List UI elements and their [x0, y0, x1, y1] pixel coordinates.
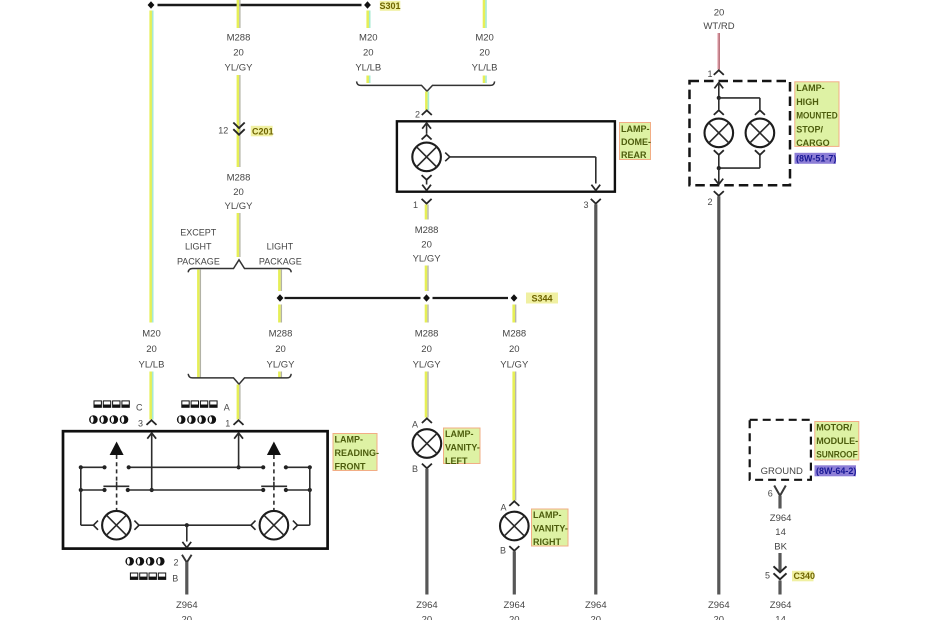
svg-text:LEFT: LEFT	[445, 456, 468, 466]
svg-text:M20: M20	[142, 329, 160, 340]
svg-text:20: 20	[509, 344, 520, 355]
switch left actuator arrow	[110, 442, 124, 456]
svg-text:14: 14	[775, 527, 786, 538]
lamp reading right bulb	[260, 511, 289, 540]
svg-text:20: 20	[146, 344, 157, 355]
connector icons squares row pin C	[94, 401, 129, 407]
wire reading right outer vertical	[298, 467, 310, 525]
label LAMP-VANITY-LEFT	[444, 428, 481, 466]
lamp stop bulb 1	[705, 119, 734, 148]
switch left dashed stem lower	[116, 486, 118, 511]
svg-text:1: 1	[413, 200, 418, 210]
wire Z964 BK sunroof upper	[778, 496, 781, 509]
reading right bulb right bracket	[293, 521, 298, 530]
connector pigtail sunroof pin 6	[774, 486, 786, 496]
svg-text:A: A	[224, 403, 230, 413]
wire except-light-package branch (x=199)	[198, 270, 200, 378]
svg-text:MOUNTED: MOUNTED	[796, 111, 838, 121]
lamp dome bulb	[412, 143, 441, 172]
node reading bottom junction	[185, 523, 189, 527]
wire stop lamp left branch top	[718, 98, 720, 110]
wire M288 YL/GY into vanity left lamp	[426, 372, 428, 418]
svg-text:WT/RD: WT/RD	[703, 21, 734, 32]
split brace under M288 wire	[188, 260, 291, 273]
lamp dome rear box	[397, 121, 615, 191]
svg-text:M288: M288	[415, 225, 439, 236]
stop bulb 1 bottom terminal chevron	[714, 150, 724, 155]
dome pin1 exit arrow	[422, 185, 431, 191]
svg-text:6: 6	[768, 489, 773, 499]
connector pigtail vanity left pin B	[422, 464, 432, 469]
wire Z964 BK from vanity right	[513, 551, 516, 594]
svg-text:LIGHT: LIGHT	[185, 242, 212, 252]
label Z964 20 vanity right ground	[503, 600, 525, 620]
svg-text:20: 20	[591, 615, 602, 620]
switch right actuator arrow	[267, 442, 281, 456]
svg-text:Z964: Z964	[416, 600, 438, 611]
switch right contact	[261, 482, 287, 487]
connector C340 chevrons	[774, 566, 787, 579]
svg-text:YL/GY: YL/GY	[500, 360, 529, 371]
wire M288 into reading lamp pin 1	[238, 385, 240, 420]
svg-text:BK: BK	[774, 542, 787, 553]
wire light-package branch (x=280) upper segment	[279, 270, 281, 292]
label LAMP-VANITY-RIGHT	[532, 509, 569, 547]
svg-text:VANITY-: VANITY-	[533, 524, 568, 534]
connector pigtail dome pin 2	[422, 110, 432, 115]
wire Z964 BK from dome pin 3	[594, 204, 597, 594]
wire M288 YL/GY into vanity right lamp	[514, 372, 516, 501]
svg-text:20: 20	[509, 615, 520, 620]
wire reading bottom row between bulbs	[139, 524, 251, 526]
stop lamp entry arrow	[714, 83, 723, 98]
svg-text:READING-: READING-	[335, 448, 380, 458]
svg-text:Z964: Z964	[503, 600, 525, 611]
svg-text:20: 20	[363, 48, 374, 59]
svg-text:M20: M20	[359, 33, 377, 44]
lamp reading left bulb	[102, 511, 131, 540]
connector pigtail vanity right pin B	[509, 546, 519, 551]
connector pigtail reading pin 2	[182, 555, 192, 563]
wire M288 YL/GY below S344 (x=514.3)	[514, 305, 516, 323]
label C340	[792, 571, 815, 582]
svg-text:Z964: Z964	[770, 600, 792, 611]
svg-text:YL/GY: YL/GY	[225, 63, 254, 74]
svg-text:HIGH: HIGH	[796, 97, 819, 107]
label LAMP-READING-FRONT	[333, 434, 379, 472]
svg-text:1: 1	[225, 419, 230, 429]
label (8W-51-7)	[795, 153, 837, 164]
label M20 20 YL/LB (x=368)	[355, 33, 381, 74]
svg-text:M20: M20	[475, 33, 493, 44]
dome pin2 entry arrow	[422, 123, 431, 134]
connector C201 chevrons	[233, 123, 244, 135]
svg-text:Z964: Z964	[176, 600, 198, 611]
svg-text:20: 20	[275, 344, 286, 355]
label (8W-64-2)	[815, 465, 857, 476]
svg-text:Z964: Z964	[585, 600, 607, 611]
wire light-package branch above merge brace	[279, 372, 281, 378]
dome bulb top terminal chevron	[422, 135, 432, 140]
label LIGHT PACKAGE	[259, 242, 302, 267]
connector icons circles row pin 2	[125, 557, 164, 566]
svg-text:YL/GY: YL/GY	[225, 201, 254, 212]
label M20 20 YL/LB (x=484.6)	[472, 33, 498, 74]
svg-text:2: 2	[415, 110, 420, 120]
svg-text:LAMP-: LAMP-	[533, 510, 562, 520]
wire YL/LB into dome lamp pin 2	[426, 92, 428, 111]
wire stop lamp right branch bottom	[719, 155, 760, 168]
svg-text:YL/GY: YL/GY	[267, 360, 296, 371]
wire light-package branch below S344	[279, 305, 281, 323]
svg-text:20: 20	[479, 48, 490, 59]
svg-text:B: B	[172, 574, 178, 584]
wire reading upper row right segment	[286, 466, 310, 468]
label Z964 14 BK	[770, 513, 792, 553]
node S301 right junction	[364, 1, 371, 8]
wire dome internal to pin 3	[450, 157, 596, 184]
splice S344 bus wire	[285, 297, 421, 299]
label Z964 20 dome ground	[585, 600, 607, 620]
wire Z964 BK to C340	[778, 553, 781, 572]
wire M288 20 YL/GY main column (x=238.5) top segment	[238, 0, 240, 28]
motor/module-sunroof dashed box	[750, 420, 811, 480]
connector pigtail stop lamp pin 2	[714, 191, 724, 196]
svg-text:M288: M288	[227, 33, 251, 44]
wire reading lower row center segment	[128, 489, 263, 491]
svg-text:20: 20	[421, 240, 432, 251]
svg-text:Z964: Z964	[708, 600, 730, 611]
label M288 20 YL/GY light package branch	[267, 329, 296, 371]
wire M20 20 YL/LB left column (x=151) upper segment	[151, 11, 153, 323]
lamp vanity right bulb	[500, 512, 529, 541]
nodes reading lower row	[79, 488, 312, 492]
wire M288 20 YL/GY segment above split brace	[238, 213, 240, 257]
label M288 20 YL/GY top	[225, 33, 254, 74]
label Z964 20 stop lamp ground	[708, 600, 730, 620]
svg-text:12: 12	[218, 126, 228, 136]
stop bulb 1 top terminal chevron	[714, 110, 724, 115]
node S344 left junction	[277, 294, 284, 301]
switch right dashed stem upper	[273, 455, 275, 482]
wire M20 stub to brace (x=484.6)	[484, 76, 486, 84]
node reading pin1 riser junction	[237, 465, 241, 469]
svg-text:STOP/: STOP/	[796, 124, 823, 134]
svg-text:REAR: REAR	[621, 150, 647, 160]
svg-text:LAMP-: LAMP-	[796, 83, 825, 93]
connector icons circles row pin 3	[89, 415, 128, 424]
wire M288 YL/GY from dome pin1 (x=426.6)	[426, 205, 428, 220]
svg-text:YL/GY: YL/GY	[413, 254, 442, 265]
label M288 20 YL/GY vanity right	[500, 329, 529, 371]
connector pigtail dome pin 3	[591, 199, 601, 204]
label EXCEPT LIGHT PACKAGE	[177, 228, 220, 267]
switch left contact	[103, 482, 129, 487]
wire stop lamp left branch bottom	[718, 155, 720, 168]
label C201	[251, 126, 274, 137]
svg-text:1: 1	[707, 69, 712, 79]
svg-text:MOTOR/: MOTOR/	[816, 423, 852, 433]
lamp high mounted stop/cargo dashed box	[690, 81, 791, 185]
wire Z964 BK from reading pin 2	[185, 562, 188, 595]
label S301	[379, 1, 400, 11]
svg-text:20: 20	[233, 48, 244, 59]
svg-text:S344: S344	[531, 294, 552, 304]
svg-text:LIGHT: LIGHT	[267, 242, 294, 252]
stop bulb 2 top terminal chevron	[755, 110, 765, 115]
switch left dashed stem upper	[116, 455, 118, 482]
svg-text:LAMP-: LAMP-	[621, 124, 650, 134]
wire M20 20 YL/LB from top edge (x=484.6)	[484, 0, 486, 28]
reading pin3 entry arrow and riser	[147, 433, 156, 490]
reading right bulb left bracket	[251, 521, 256, 530]
svg-text:YL/LB: YL/LB	[139, 360, 165, 371]
wire reading upper row left segment	[81, 466, 105, 468]
svg-text:M288: M288	[227, 173, 251, 184]
svg-text:2: 2	[173, 558, 178, 568]
reading pin1 entry arrow and riser	[234, 433, 243, 467]
switch right dashed stem lower	[273, 486, 275, 511]
nodes reading upper row	[79, 465, 312, 469]
wire WT/RD into stop lamp	[717, 33, 721, 70]
svg-text:VANITY-: VANITY-	[445, 443, 480, 453]
label M288 20 YL/GY dome feed	[413, 225, 442, 265]
svg-text:(8W-64-2): (8W-64-2)	[816, 466, 856, 476]
connector pigtail dome pin 1	[422, 199, 432, 204]
wire M288 YL/GY below S344 (x=426.6)	[426, 305, 428, 323]
svg-text:C340: C340	[794, 571, 816, 581]
wire Z964 BK below C340	[778, 581, 781, 595]
connector icons circles row pin 1	[177, 415, 216, 424]
wire reading lower row right segment	[286, 489, 310, 491]
svg-text:A: A	[412, 420, 418, 430]
wire M20 stub to brace (x=368)	[368, 76, 370, 84]
label 20 WT/RD stop lamp feed	[703, 8, 734, 33]
svg-text:3: 3	[138, 419, 143, 429]
node stop lamp bottom junction	[717, 166, 721, 170]
svg-text:B: B	[412, 464, 418, 474]
svg-text:B: B	[500, 546, 506, 556]
dome bulb bottom terminal chevron	[422, 175, 432, 184]
merge brace above dome lamp	[357, 81, 495, 91]
wire M20 20 YL/LB stub under S301 right (x=368)	[368, 11, 370, 29]
label LAMP-HIGH MOUNTED STOP/CARGO	[795, 82, 839, 148]
svg-text:GROUND: GROUND	[761, 466, 803, 477]
connector icons squares row pin A	[182, 401, 217, 407]
label LAMP-DOME-REAR	[620, 123, 652, 161]
dome bulb right terminal bracket	[445, 153, 450, 162]
node S301 left junction	[148, 1, 155, 8]
svg-text:C: C	[136, 403, 143, 413]
wire Z964 BK from vanity left	[425, 469, 428, 595]
svg-text:MODULE-: MODULE-	[816, 436, 858, 446]
stop bulb 2 bottom terminal chevron	[755, 150, 765, 155]
wire reading lower row left segment	[81, 489, 105, 491]
lamp vanity left bulb	[413, 429, 442, 458]
wire Z964 BK from stop lamp	[717, 196, 720, 594]
svg-text:5: 5	[765, 571, 770, 581]
node reading pin3 riser junction	[150, 488, 154, 492]
svg-text:C201: C201	[252, 126, 274, 136]
svg-text:20: 20	[182, 615, 193, 620]
connector pigtail vanity right pin A	[509, 501, 519, 506]
reading left bulb left bracket	[93, 521, 98, 530]
svg-text:20: 20	[714, 8, 725, 19]
svg-text:PACKAGE: PACKAGE	[177, 257, 220, 267]
svg-text:2: 2	[707, 197, 712, 207]
svg-text:Z964: Z964	[770, 513, 792, 524]
svg-text:S301: S301	[379, 1, 400, 11]
label S344	[526, 293, 558, 304]
svg-text:PACKAGE: PACKAGE	[259, 257, 302, 267]
svg-text:3: 3	[583, 200, 588, 210]
svg-text:RIGHT: RIGHT	[533, 537, 562, 547]
connector pigtail reading pin 1	[234, 420, 244, 425]
connector pigtail vanity left pin A	[422, 418, 432, 423]
wire M288 YL/GY to S344	[426, 266, 428, 292]
svg-text:20: 20	[233, 187, 244, 198]
svg-text:(8W-51-7): (8W-51-7)	[796, 154, 836, 164]
wire stop lamp right branch top	[719, 98, 760, 110]
svg-text:20: 20	[714, 615, 725, 620]
wire M288 20 YL/GY segment through C201	[238, 75, 240, 167]
svg-text:A: A	[500, 503, 506, 513]
lamp stop bulb 2	[746, 119, 775, 148]
connector icons squares row pin B	[130, 573, 165, 579]
lamp reading front box	[63, 431, 328, 548]
reading pin2 exit arrow	[182, 525, 191, 547]
node stop lamp top junction	[717, 96, 721, 100]
stop lamp exit arrow	[714, 168, 723, 184]
svg-text:YL/LB: YL/LB	[355, 63, 381, 74]
label M20 20 YL/LB left column	[139, 329, 165, 371]
svg-text:FRONT: FRONT	[335, 462, 366, 472]
svg-text:EXCEPT: EXCEPT	[180, 228, 217, 238]
label Z964 20 vanity left ground	[416, 600, 438, 620]
svg-text:M288: M288	[415, 329, 439, 340]
svg-text:DOME-: DOME-	[621, 137, 651, 147]
node S344 right junction	[511, 294, 518, 301]
svg-text:14: 14	[775, 615, 786, 620]
splice S301 bus wire	[158, 4, 362, 6]
wire reading left outer vertical	[81, 467, 94, 525]
merge brace above reading lamp	[188, 374, 291, 384]
svg-text:LAMP-: LAMP-	[335, 435, 364, 445]
svg-text:YL/LB: YL/LB	[472, 63, 498, 74]
connector pigtail reading pin 3	[147, 420, 157, 425]
svg-text:YL/GY: YL/GY	[413, 360, 442, 371]
svg-text:20: 20	[421, 344, 432, 355]
label Z964 14 sunroof ground	[770, 600, 792, 620]
reading left bulb right bracket	[134, 521, 139, 530]
dome pin3 exit arrow	[591, 185, 600, 191]
svg-text:SUNROOF: SUNROOF	[816, 450, 858, 460]
svg-text:M288: M288	[269, 329, 293, 340]
label Z964 20 reading ground	[176, 600, 198, 620]
label MOTOR/MODULE-SUNROOF	[815, 422, 859, 461]
node S344 middle junction	[423, 294, 430, 301]
wire reading upper row center segment	[129, 466, 264, 468]
svg-text:M288: M288	[502, 329, 526, 340]
svg-text:LAMP-: LAMP-	[445, 429, 474, 439]
label M288 20 YL/GY vanity left	[413, 329, 442, 371]
connector pigtail stop lamp pin 1	[714, 70, 724, 75]
svg-text:CARGO: CARGO	[796, 138, 830, 148]
wire M20 20 YL/LB left column lower segment	[151, 372, 153, 420]
label M288 20 YL/GY middle	[225, 173, 254, 213]
svg-text:20: 20	[422, 615, 433, 620]
